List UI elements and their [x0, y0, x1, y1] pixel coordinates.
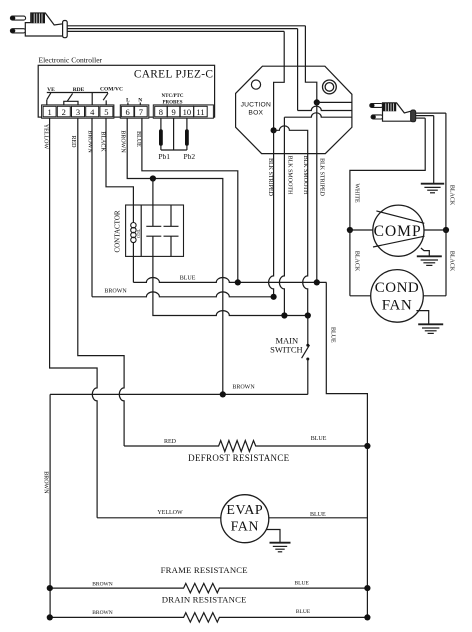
junction box (octagon) [236, 66, 352, 153]
svg-text:BROWN: BROWN [43, 471, 49, 494]
node: junction dot line3 x main switch [305, 312, 311, 318]
terminal 8 [155, 106, 167, 117]
svg-text:10: 10 [183, 107, 192, 117]
svg-text:5: 5 [104, 107, 108, 117]
wire T3: cord top conductor down into junction box, jog right [305, 26, 316, 103]
svg-text:NTC/PTC: NTC/PTC [162, 94, 184, 99]
terminal 1 [43, 106, 56, 117]
wire: coil bottom down to blue bus corner [132, 242, 134, 282]
svg-text:BLK SMOOTH: BLK SMOOTH [302, 156, 308, 196]
svg-text:COM/VC: COM/VC [100, 86, 123, 92]
svg-text:BOX: BOX [248, 109, 263, 116]
svg-text:BLACK: BLACK [100, 131, 106, 152]
svg-text:BLUE: BLUE [311, 436, 327, 442]
wire W4 (BLK STRIPED) from dot down to blue bus node [316, 102, 318, 282]
node: junction dot on terminal-6 line (contact feed) [150, 175, 156, 181]
svg-text:BLUE: BLUE [295, 581, 310, 587]
svg-text:BLUE: BLUE [310, 512, 326, 518]
contactor contact B [164, 205, 179, 256]
svg-text:1: 1 [47, 107, 51, 117]
wire YELLOW: terminal 1 down, jog right, down (hops switch brown line) to EVAP row [50, 118, 98, 518]
socket line L2 from T2 corner to box edge, hop over W4 [298, 106, 352, 110]
terminal strip group 1 (terminals 1-5) [42, 105, 114, 118]
svg-text:BLK STRIPED: BLK STRIPED [318, 158, 324, 197]
terminal 4 [86, 106, 99, 117]
svg-text:BLACK: BLACK [448, 185, 454, 206]
wire from terminal 8 with probe sleeve Pb1 [160, 118, 162, 150]
internal relay bus line [47, 92, 108, 94]
contactor coil K1 (on black wire) [131, 223, 141, 243]
svg-text:COIL: COIL [136, 228, 141, 238]
node: junction dot brown bus x W1 [271, 294, 277, 300]
resistor R1 DEFROST RESISTANCE row [124, 436, 367, 463]
electronic controller U1 outline [38, 65, 214, 117]
wire W1 (BLK STRIPED) down from dot, hop over blue bus, to brown node [269, 130, 274, 296]
node: frame row left dot [47, 585, 53, 591]
wire T1: cord bottom conductor down into junction box, jog left [274, 31, 285, 130]
svg-text:COND: COND [375, 280, 420, 296]
svg-text:RDE: RDE [73, 87, 85, 93]
svg-text:BROWN: BROWN [104, 288, 127, 294]
wire: BLACK vertical from P2 down to COMP right node [445, 113, 447, 230]
node: drain row left dot [47, 614, 53, 620]
svg-text:BLUE: BLUE [180, 276, 196, 282]
svg-text:Pb1: Pb1 [158, 152, 170, 161]
svg-text:BROWN: BROWN [92, 581, 113, 587]
wire: terminal 6 down, corner right to node, long run right, down long vertical [127, 118, 223, 394]
svg-text:COMP: COMP [374, 223, 422, 240]
socket line L3 from W2 corner to box edge, hop over W4 [284, 113, 352, 117]
wire: P2 cord bottom conductor to white drop [416, 117, 426, 119]
svg-text:L: L [126, 97, 130, 103]
brown bus: terminal-4 wire corner right to W1 node (hops contact wire and long vertical) [92, 292, 274, 297]
svg-text:FRAME RESISTANCE: FRAME RESISTANCE [161, 565, 248, 575]
wire: COMP left lead [350, 229, 373, 231]
terminal strip group 3 (terminals 8-11) [153, 105, 213, 118]
ground G1 (mains earth) [421, 184, 444, 193]
node: junction dot switch line x long vertical [220, 391, 226, 397]
svg-text:RED: RED [70, 136, 76, 149]
wire from terminal 9 [173, 118, 175, 150]
terminal 4 stub to bus [91, 93, 93, 105]
node: COMP left junction dot [347, 227, 353, 233]
svg-text:BROWN: BROWN [92, 610, 113, 616]
svg-text:6: 6 [125, 107, 129, 117]
svg-text:BLACK: BLACK [353, 251, 359, 272]
svg-text:JUCTION: JUCTION [241, 102, 271, 109]
svg-text:9: 9 [171, 107, 175, 117]
svg-text:2: 2 [62, 107, 66, 117]
probe loop bottom wire [161, 149, 187, 151]
blue bus: coil corner right across to right side (hops contact wire and long vertical) [133, 277, 326, 282]
svg-text:BLK SMOOTH: BLK SMOOTH [286, 156, 292, 196]
svg-text:CONTACTOR: CONTACTOR [114, 210, 122, 252]
svg-text:7: 7 [139, 107, 143, 117]
power plug P1 (top-left, 2-prong with cord) [10, 13, 67, 38]
svg-text:FAN: FAN [382, 298, 412, 314]
svg-text:4: 4 [90, 107, 95, 117]
svg-text:BLUE: BLUE [330, 327, 336, 343]
ground G3 (COND FAN) [418, 324, 443, 333]
junction box mounting hole (right, double ring) [323, 80, 337, 94]
svg-text:BLUE: BLUE [296, 609, 311, 615]
terminal 7 [135, 106, 148, 117]
wire W2 (BLK SMOOTH) from L3 corner down, hop over blue bus, to line3 node [279, 117, 284, 315]
node: junction dot blue bus x terminal-7 wire [235, 279, 241, 285]
wire: EVAP row left lead [97, 517, 221, 519]
svg-text:DEFROST RESISTANCE: DEFROST RESISTANCE [188, 453, 289, 463]
svg-text:EVAP: EVAP [226, 503, 263, 518]
terminal 11 [194, 106, 207, 117]
ground G2 (COMP) [417, 256, 442, 265]
wire: COND FAN left lead [350, 295, 371, 297]
wire: earth vertical from P2 down to ground G1 [433, 116, 435, 184]
wire: COMP right lead [424, 229, 446, 231]
wire W3 (BLK SMOOTH) continues down, hop over blue bus, to main-switch node [303, 154, 308, 316]
node: COMP right junction dot [443, 227, 449, 233]
resistor R3 DRAIN RESISTANCE row [50, 595, 368, 623]
node: junction dot blue bus x W4 [314, 279, 320, 285]
wire T2: cord middle conductor down to socket line L2 [297, 29, 299, 111]
wire: P2 cord top conductor to BLACK drop [416, 112, 446, 114]
contactor contact A (on switched wire) [146, 179, 161, 237]
junction box mounting hole (left) [251, 80, 260, 89]
brown line from main switch left to far-left vertical [50, 393, 308, 395]
node: drain row right dot [364, 614, 370, 620]
main switch S1 [270, 316, 309, 395]
svg-text:3: 3 [76, 107, 80, 117]
svg-text:CAREL PJEZ-C: CAREL PJEZ-C [134, 68, 213, 80]
wire: BLACK vertical COMP right node down to COND FAN row [445, 230, 447, 296]
wire: COMP ground stub [421, 248, 429, 256]
svg-text:RED: RED [164, 439, 177, 445]
far-left BROWN vertical down to drain row [49, 394, 51, 617]
wire: white drop down then left then down to COMP left node [350, 118, 425, 230]
socket line L1 from W4 dot to box edge [317, 101, 352, 103]
svg-text:DRAIN RESISTANCE: DRAIN RESISTANCE [162, 595, 247, 605]
terminal 10 [180, 106, 193, 117]
wire: BLACK vertical COMP left node down to COND FAN row [349, 230, 351, 296]
resistor R2 FRAME RESISTANCE row [50, 565, 368, 593]
svg-text:N: N [138, 97, 142, 103]
svg-text:8: 8 [159, 107, 163, 117]
node: junction dot defrost x right vertical [364, 443, 370, 449]
svg-text:BROWN: BROWN [120, 130, 126, 153]
terminal 6 [121, 106, 134, 117]
svg-text:Pb2: Pb2 [183, 152, 195, 161]
svg-text:YELLOW: YELLOW [43, 124, 49, 150]
svg-text:BROWN: BROWN [232, 384, 255, 390]
terminal 3 [72, 106, 85, 117]
wire: P2 cord middle conductor to earth drop [416, 115, 434, 117]
wire from terminal 10 with probe sleeve Pb2 [186, 118, 188, 150]
node: junction dot inside box on W1 [271, 127, 277, 133]
wire: EVAP FAN ground stub [266, 530, 280, 543]
terminal 5 [100, 106, 113, 117]
wire: contact A bottom down to line3 corner, then right to main switch node (hop at long vertical) [153, 236, 308, 315]
terminal 2 [57, 106, 70, 117]
contactor internal partition [140, 205, 142, 256]
wire BLACK: terminal 5 down, jog right into contactor coil [106, 118, 133, 222]
svg-text:Electronic Controller: Electronic Controller [39, 56, 103, 65]
blue right-side vertical: bus corner down, jog right, down to drain row [326, 282, 367, 617]
svg-text:SWITCH: SWITCH [270, 345, 303, 355]
wire: COND FAN ground stub [416, 311, 428, 324]
svg-text:FAN: FAN [231, 520, 259, 535]
contactor K1 box [126, 205, 184, 256]
wire: branch from W1 dot right to W3, hop over W2 [274, 126, 308, 154]
svg-text:YELLOW: YELLOW [157, 510, 183, 516]
svg-text:WHITE: WHITE [353, 183, 359, 203]
node: frame row right dot [364, 585, 370, 591]
power cord from P1 to junction box (3 conductors) [67, 25, 305, 27]
motor EVAP FAN (evaporator fan) [221, 495, 269, 543]
motor COND FAN (condenser fan) [371, 270, 424, 323]
wire: EVAP row right lead [269, 517, 368, 519]
terminal 9 [167, 106, 179, 117]
power plug P2 (right side) [370, 103, 416, 122]
svg-text:BLACK: BLACK [448, 251, 454, 272]
svg-text:11: 11 [196, 107, 204, 117]
node: junction dot inside box on W4 [314, 99, 320, 105]
svg-text:BLUE: BLUE [135, 131, 141, 147]
wire BROWN: terminal 4 down to brown bus corner [91, 118, 93, 297]
motor COMP (compressor) [373, 205, 425, 256]
wire: COND FAN right lead [423, 295, 446, 297]
wire BLUE: terminal 7 down, corner right, down to blue bus [142, 118, 238, 282]
ground G4 (EVAP FAN) [270, 543, 291, 552]
wire RED: terminal 3 down, jog right, down (hops switch brown line) to defrost row [78, 118, 124, 446]
svg-text:VE: VE [47, 87, 55, 93]
terminal strip group 2 (terminals 6-7) [120, 105, 149, 118]
svg-text:BLK STRIPED: BLK STRIPED [267, 158, 273, 197]
node: junction dot line3 x W2 [281, 312, 287, 318]
